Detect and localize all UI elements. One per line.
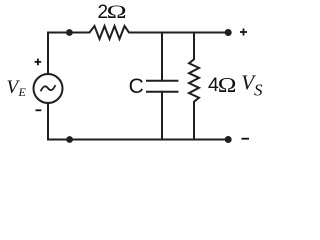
svg-text:C: C — [129, 75, 144, 98]
svg-text:S: S — [254, 81, 263, 100]
svg-text:Ω: Ω — [218, 74, 237, 98]
svg-text:Ω: Ω — [107, 2, 127, 23]
svg-text:E: E — [18, 85, 27, 99]
